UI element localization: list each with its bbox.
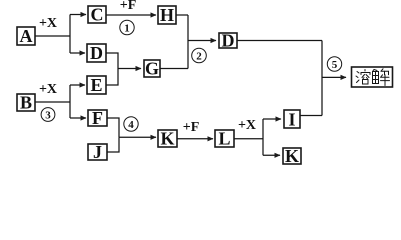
box dissolve (rong jie) (352, 67, 393, 87)
arrow into dissolve box (322, 76, 346, 78)
svg-text:+X: +X (39, 16, 57, 31)
svg-text:L: L (218, 129, 230, 149)
arrow into C (70, 14, 86, 16)
svg-text:C: C (91, 5, 104, 25)
arrow into K2 (263, 154, 280, 156)
svg-text:+F: +F (183, 120, 200, 135)
svg-text:+F: +F (120, 0, 137, 13)
wire branch vertical (L) (262, 119, 264, 155)
svg-text:G: G (145, 59, 159, 79)
wire far vertical (321, 41, 323, 116)
circled 1 (120, 20, 134, 34)
wire branch vertical (A) (69, 15, 71, 54)
svg-text:E: E (90, 75, 102, 95)
wire J right (107, 137, 119, 152)
svg-text:1: 1 (124, 22, 130, 34)
arrow into G (118, 68, 141, 70)
box L (215, 129, 234, 149)
svg-text:5: 5 (332, 59, 338, 71)
svg-text:J: J (93, 142, 102, 162)
arrow into K1 (119, 136, 156, 138)
box D2 (219, 31, 237, 51)
wire F right (107, 118, 119, 137)
arrow into D1 (70, 52, 85, 54)
arrow into E (70, 84, 85, 86)
wire B to branch (35, 101, 70, 103)
circled 5 (327, 57, 341, 71)
wire D1 right (106, 53, 118, 69)
svg-text:H: H (160, 5, 174, 25)
wire I to far vertical (300, 115, 322, 117)
box G (144, 59, 160, 79)
svg-text:D: D (90, 43, 103, 63)
box K1 (158, 129, 177, 149)
svg-text:+X: +X (238, 118, 256, 133)
arrow K1 to L (177, 138, 213, 140)
wire H to vertical (176, 14, 188, 16)
svg-text:A: A (20, 26, 33, 46)
glyph jie (untie/solve) (373, 69, 390, 86)
box D1 (87, 43, 106, 63)
wire L to branch (234, 138, 263, 140)
arrow into F (70, 117, 86, 119)
svg-text:2: 2 (196, 50, 202, 62)
wire G to vertical (160, 68, 188, 70)
circled 2 (192, 48, 207, 63)
box H (158, 5, 176, 25)
svg-text:3: 3 (45, 109, 51, 121)
box E (87, 75, 106, 95)
svg-text:F: F (92, 108, 103, 128)
arrow C to H (106, 14, 156, 16)
box F (88, 108, 107, 128)
svg-text:D: D (222, 31, 235, 51)
circled 4 (124, 117, 138, 131)
wire E right (106, 69, 118, 86)
svg-text:K: K (285, 146, 299, 166)
wire vertical H-G (187, 15, 189, 69)
glyph rong (water radical + rong) (356, 70, 370, 85)
svg-text:K: K (160, 129, 174, 149)
wire branch vertical (B) (69, 85, 71, 118)
box A (17, 26, 35, 46)
arrow into I (263, 118, 281, 120)
box I (284, 110, 300, 130)
wire A to branch (35, 35, 70, 37)
wire D2 to far vertical (237, 40, 322, 42)
svg-text:4: 4 (128, 119, 134, 131)
circled 3 (41, 108, 55, 122)
svg-text:I: I (288, 110, 295, 130)
arrow into D2 (188, 40, 216, 42)
box K2 (283, 146, 301, 166)
box B (17, 93, 35, 113)
svg-text:+X: +X (39, 82, 57, 97)
svg-text:B: B (20, 93, 32, 113)
box C (88, 5, 106, 25)
box J (88, 142, 107, 162)
